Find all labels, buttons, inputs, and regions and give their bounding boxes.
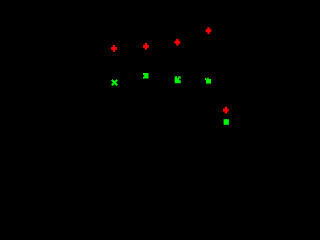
- green square marker G4 (with X arm protrusions at top-left): [205, 78, 211, 84]
- green X marker G1: [112, 80, 117, 86]
- red plus marker P4: [206, 27, 212, 34]
- red plus marker P3: [174, 39, 180, 46]
- green square marker G2 (with X arm notch at left): [143, 73, 149, 79]
- red plus marker P5: [223, 107, 229, 114]
- green square marker G5: [224, 119, 229, 125]
- green square marker G3 (with X arms, notched top and right): [175, 76, 181, 83]
- red plus marker P2: [143, 43, 149, 50]
- red plus marker P1: [111, 45, 117, 52]
